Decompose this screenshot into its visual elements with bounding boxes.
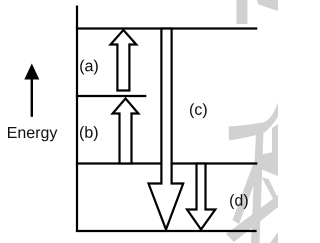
label (d) bbox=[230, 194, 248, 209]
label (c) bbox=[190, 103, 207, 118]
watermark band top bbox=[236, 0, 247, 24]
arrow (a) hollow up bbox=[111, 30, 137, 91]
arrow (d) hollow down bbox=[187, 164, 215, 230]
arrow (b) hollow up bbox=[113, 99, 139, 164]
watermark corner piece bbox=[270, 232, 278, 243]
watermark vertical stroke bbox=[251, 131, 264, 243]
energy direction arrow head bbox=[24, 64, 39, 80]
label Energy bbox=[8, 127, 57, 141]
watermark right-falling stroke bbox=[262, 177, 279, 208]
watermark junction block bbox=[255, 151, 278, 176]
watermark right edge band bbox=[272, 124, 278, 153]
top energy level line bbox=[76, 27, 257, 29]
bottom base line bbox=[76, 230, 257, 232]
second energy level line (left) bbox=[76, 95, 146, 97]
third energy level line bbox=[76, 162, 257, 164]
watermark swoosh stroke bbox=[229, 103, 279, 141]
label (a) bbox=[80, 60, 98, 75]
watermark long shallow stroke bbox=[226, 195, 278, 242]
watermark wedge top-right bbox=[257, 0, 278, 11]
arrow (c) hollow down bbox=[149, 29, 184, 230]
energy direction arrow shaft bbox=[31, 77, 33, 117]
energy axis vertical line bbox=[76, 6, 78, 232]
watermark left-falling stroke bbox=[233, 163, 261, 224]
label (b) bbox=[80, 126, 98, 141]
